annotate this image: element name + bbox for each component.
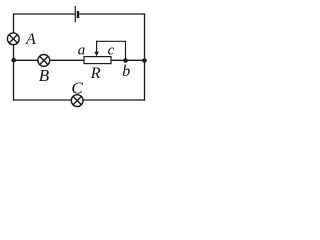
- wire top-right (battery right lead): [79, 13, 145, 15]
- lamp C: [71, 95, 83, 107]
- wire right vertical: [144, 13, 146, 100]
- node junction right (middle wire to right wire): [142, 58, 147, 63]
- wire bottom: [13, 99, 145, 101]
- svg-text:b: b: [122, 63, 130, 80]
- svg-text:C: C: [71, 78, 83, 97]
- svg-text:B: B: [39, 66, 50, 85]
- svg-text:c: c: [108, 43, 115, 59]
- wire middle horizontal: [14, 59, 145, 61]
- slider arrow: [94, 41, 99, 57]
- wire left vertical: [13, 13, 15, 100]
- svg-text:a: a: [78, 43, 86, 59]
- battery short thick plate: [77, 11, 79, 18]
- svg-text:A: A: [25, 31, 36, 48]
- lamp B: [38, 55, 50, 67]
- resistor R (rheostat body): [84, 57, 111, 64]
- node b junction: [123, 58, 128, 63]
- wire top-left (battery left lead): [14, 13, 76, 15]
- battery long plate: [74, 6, 76, 22]
- wire slider bypass: [97, 41, 126, 60]
- node junction left (middle wire to left wire): [11, 58, 16, 63]
- svg-text:R: R: [90, 65, 101, 82]
- lamp A: [7, 33, 19, 45]
